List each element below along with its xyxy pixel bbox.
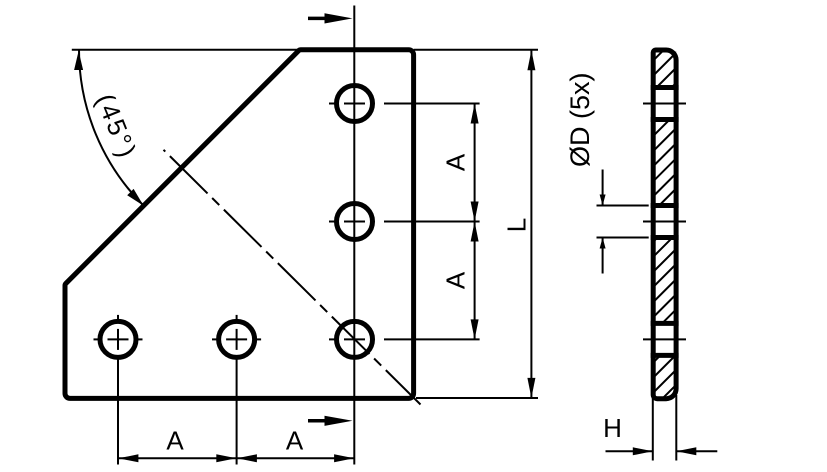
H dim extension lines <box>653 395 677 461</box>
bottom A arrows <box>118 454 138 462</box>
section arrow top <box>308 13 353 23</box>
svg-text:A: A <box>286 426 304 456</box>
svg-text:A: A <box>166 426 184 456</box>
hole middle crosshair <box>329 221 365 223</box>
L arrows <box>527 50 535 70</box>
ØD arrows <box>600 195 606 206</box>
hole top <box>337 86 373 122</box>
L dim line <box>530 50 532 399</box>
ØD dim lines <box>602 170 604 274</box>
side view hatch <box>648 34 680 428</box>
A dim right: dimension line <box>474 104 476 340</box>
side view hole centerlines <box>643 104 686 340</box>
bottom A dim line <box>118 457 355 459</box>
hole bottom-right <box>337 321 373 357</box>
angle extension line <box>72 49 300 51</box>
angle arc arrow top <box>74 51 83 70</box>
section arrow bottom <box>308 416 353 426</box>
hole top crosshair <box>329 103 365 105</box>
angle arc arrow bottom <box>127 189 143 206</box>
miter centerline (dash-dot) <box>164 150 421 405</box>
svg-text:A: A <box>440 153 470 171</box>
hole bottom-left crosshair <box>94 315 143 465</box>
svg-text:L: L <box>501 218 531 232</box>
ØD dim extension lines <box>597 206 649 238</box>
A dim right: extension lines <box>384 104 480 340</box>
plate outline front view <box>65 50 414 399</box>
A dim right arrows <box>471 104 479 124</box>
hole bottom-left <box>100 321 136 357</box>
hole middle <box>337 204 373 240</box>
svg-text:H: H <box>603 413 622 443</box>
H arrows <box>633 447 653 455</box>
svg-text:ØD (5x): ØD (5x) <box>565 73 595 168</box>
side view outline <box>653 50 676 399</box>
hole bottom-middle crosshair <box>212 315 261 465</box>
H dim lines <box>606 450 718 452</box>
side view hole edges <box>651 88 679 356</box>
svg-text:A: A <box>440 271 470 289</box>
L dim: extension lines <box>414 50 538 398</box>
hole bottom-middle <box>219 321 255 357</box>
angle arc <box>79 50 144 206</box>
section line <box>353 6 355 465</box>
hole bottom-right crosshair <box>329 338 365 340</box>
